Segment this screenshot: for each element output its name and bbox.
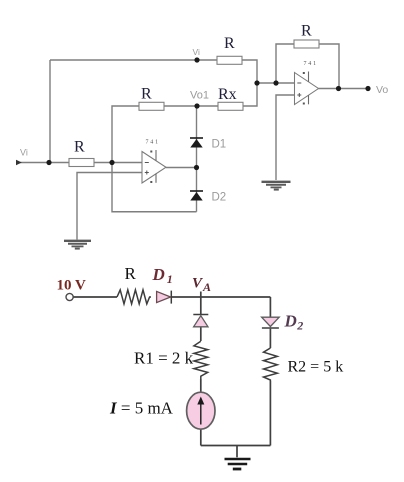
svg-text:Vo1: Vo1	[190, 90, 209, 102]
resistor R2 = 5 k (vertical zigzag)	[264, 348, 344, 381]
wire source terminal to resistor R	[73, 296, 117, 298]
node Vo1	[194, 103, 199, 108]
resistor Rx	[218, 86, 243, 110]
Vi source terminal arrow	[16, 160, 22, 165]
junction summing node of U2	[254, 80, 259, 85]
resistor R3 (top rail R)	[217, 35, 242, 64]
diode D1	[190, 138, 226, 151]
svg-text:R: R	[224, 35, 235, 52]
svg-text:D1: D1	[212, 139, 227, 151]
wire bottom rail	[201, 445, 271, 447]
wire U2 output to Vo terminal	[319, 88, 369, 90]
resistor R1 = 2 k (vertical zigzag)	[134, 341, 208, 379]
junction at Vi line and left vertical	[46, 160, 51, 165]
node Vo terminal	[365, 86, 370, 91]
wire U1 non-inverting input to ground	[77, 173, 142, 240]
svg-text:R: R	[141, 86, 152, 103]
wire diode to resistor R1	[200, 327, 202, 341]
svg-text:R1 = 2 k: R1 = 2 k	[134, 349, 194, 368]
wire top rail Vi	[50, 59, 197, 61]
diode D2 (pointing down, pink)	[262, 312, 304, 333]
op-amp U1 (741)	[142, 140, 166, 184]
node Vi on top rail	[194, 57, 199, 62]
ground (bottom, three-bar)	[225, 459, 251, 469]
wire U2 non-inverting input to ground	[276, 95, 295, 180]
junction at inverting summing node of U1	[109, 160, 114, 165]
op-amp U2 (741)	[295, 61, 319, 105]
wire Vi top rail to resistor R3	[197, 59, 217, 61]
svg-text:10 V: 10 V	[57, 278, 86, 294]
svg-text:R2 = 5 k: R2 = 5 k	[288, 359, 344, 376]
diode D3 (below VA, pointing up, pink)	[193, 315, 208, 327]
wire diode D1 cathode to corner over D2	[172, 296, 271, 298]
wire left vertical from top rail to Vi input line	[49, 60, 51, 163]
wire R1 to current source	[200, 379, 202, 392]
wire node Vo1 to resistor Rx	[197, 105, 218, 107]
wire ground stub	[236, 446, 238, 458]
resistor R (zigzag)	[117, 264, 151, 304]
svg-text:R: R	[301, 23, 312, 40]
wire U2 feedback loop left	[276, 44, 294, 83]
svg-text:Vo: Vo	[376, 84, 388, 96]
svg-text:D2: D2	[212, 192, 227, 204]
svg-text:Vi: Vi	[193, 47, 201, 57]
ground (right, layered earth)	[262, 182, 291, 190]
wire U2 feedback loop right	[319, 44, 339, 89]
svg-text:R: R	[74, 139, 85, 156]
wire R2 to bottom rail	[269, 381, 271, 446]
svg-text:Vi: Vi	[20, 148, 28, 158]
svg-text:741: 741	[146, 140, 160, 146]
wire current source to bottom rail	[200, 429, 202, 446]
resistor R4 (feedback R of U2)	[294, 23, 319, 49]
junction diode node (U1 output)	[194, 165, 199, 170]
resistor R1 (input R)	[69, 139, 94, 167]
wire Vi input to first junction	[20, 162, 69, 164]
svg-text:I = 5 mA: I = 5 mA	[109, 399, 174, 418]
wire summing node to U2 inverting input	[257, 82, 295, 84]
svg-text:Rx: Rx	[218, 86, 237, 103]
wire op-amp U1 output to diode node	[166, 167, 197, 169]
junction U2 output	[336, 86, 341, 91]
wire diode string vertical	[196, 106, 198, 212]
svg-text:R: R	[125, 264, 137, 283]
ground (left, layered earth)	[64, 241, 91, 249]
diode D2	[190, 191, 226, 204]
wire R1 output to op-amp inverting input	[94, 162, 142, 164]
resistor R2 (feedback R of U1)	[139, 86, 164, 111]
source terminal 10 V	[66, 293, 73, 300]
wire feedback resistor to node Vo1	[164, 105, 197, 107]
wire feedback left vertical and bottom return	[112, 106, 197, 212]
junction feedback tap of U2	[273, 80, 278, 85]
svg-text:741: 741	[304, 61, 318, 67]
diode D1 (series, pink)	[152, 265, 173, 304]
wire R3 to summing vertical	[242, 60, 257, 106]
wire VA corner down to D2	[269, 297, 271, 317]
wire D2 to resistor R2	[269, 329, 271, 348]
current source I = 5 mA	[109, 392, 215, 429]
wire node VA down to diode	[200, 292, 202, 315]
